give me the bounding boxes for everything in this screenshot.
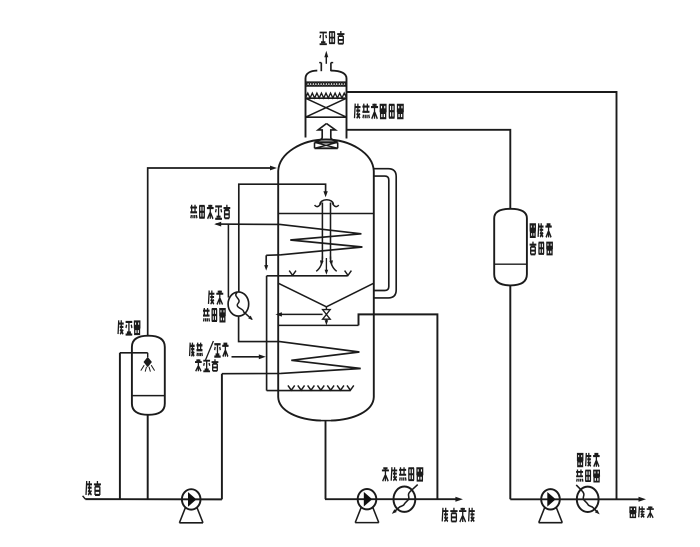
feed pipe into column top	[239, 184, 326, 292]
receiver outlet pipe	[509, 285, 511, 499]
top tray	[278, 213, 374, 215]
tray 2	[267, 275, 348, 277]
label: initial	[208, 291, 214, 304]
vacuum arrow	[325, 56, 327, 64]
heater steam branch	[227, 224, 229, 297]
label: fat condenser	[355, 104, 361, 119]
deodorized oil outlet pipe	[359, 314, 438, 499]
demister mesh band (crosshatch)	[306, 81, 347, 83]
zigzag tray band	[306, 93, 347, 98]
label: raw material	[86, 481, 92, 495]
vapour duct / demister box at dome apex	[315, 141, 338, 143]
cooler oil cooler	[394, 487, 416, 512]
label: deaerator	[118, 320, 124, 334]
cooler distillate cooler	[577, 487, 599, 512]
vapour lift chimney	[321, 203, 323, 260]
label: stirring/stripping	[190, 343, 195, 356]
vacuum nozzle	[320, 63, 322, 72]
feed riser	[119, 353, 121, 500]
label: distillate (cooler)	[577, 454, 584, 466]
pump P1 (feed)	[182, 489, 201, 509]
condenser liquid pipe (to distillate receiver)	[347, 130, 511, 209]
coil drain to tray 2	[265, 255, 267, 266]
pump P3 (distillate)	[541, 489, 560, 509]
label: heater	[203, 308, 210, 321]
tray 3	[278, 324, 358, 326]
oil heating coil (lower)	[222, 316, 361, 374]
oil riser from pump	[221, 374, 223, 500]
label: receiver	[530, 242, 537, 255]
valve side line	[277, 313, 322, 315]
label: cooler	[576, 470, 583, 482]
raw material feed line	[85, 498, 222, 500]
distillate receiver vessel	[494, 209, 527, 286]
condenser column shell	[305, 79, 307, 138]
deaerator outlet	[147, 415, 149, 500]
X packing box	[306, 116, 347, 118]
stripping steam inlet arrow	[232, 356, 260, 358]
deodorized oil line	[325, 421, 327, 500]
heating steam coil (upper)	[216, 224, 363, 255]
pump P2 (oil)	[358, 489, 377, 509]
deaerator vent pipe to column	[148, 168, 273, 336]
label: distillate (receiver)	[530, 224, 536, 236]
label: steam	[195, 359, 202, 371]
sparger header	[267, 390, 351, 392]
label: distillate product	[629, 507, 636, 517]
heater coil squiggle	[236, 292, 252, 319]
label: deodorized oil	[442, 508, 448, 522]
external circulation duct	[374, 169, 396, 298]
transfer valve (bowtie)	[325, 307, 327, 310]
label: heating steam	[190, 205, 197, 218]
block arrow (vapour to condenser)	[316, 124, 327, 142]
feed spray nozzle	[120, 352, 148, 354]
label: oil cooler	[382, 467, 389, 481]
deodorizer column shell	[278, 140, 374, 172]
distillate product line	[510, 498, 639, 500]
fat condenser outlet pipe (top, to distillate cooler)	[347, 92, 617, 499]
label: qu zhen kong (to vacuum)	[320, 33, 327, 45]
deaerator vessel	[132, 336, 165, 415]
initial heater E1	[228, 292, 249, 316]
funnel collector	[278, 283, 326, 307]
stripping sparger downcomer	[266, 276, 268, 391]
